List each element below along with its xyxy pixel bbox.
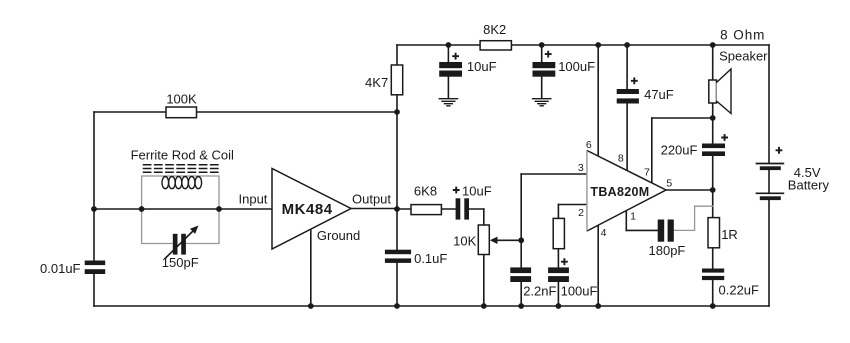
svg-text:6: 6 — [586, 139, 592, 151]
svg-text:2: 2 — [578, 207, 584, 219]
svg-text:MK484: MK484 — [282, 201, 333, 218]
svg-text:1R: 1R — [721, 227, 738, 242]
svg-text:220uF: 220uF — [661, 143, 698, 158]
svg-text:Output: Output — [352, 191, 391, 206]
svg-text:100uF: 100uF — [561, 284, 598, 299]
svg-text:4: 4 — [601, 227, 607, 239]
svg-text:0.01uF: 0.01uF — [40, 261, 81, 276]
svg-text:150pF: 150pF — [162, 255, 199, 270]
svg-text:180pF: 180pF — [649, 243, 686, 258]
svg-text:8 Ohm: 8 Ohm — [720, 27, 765, 42]
svg-text:8: 8 — [618, 152, 624, 164]
svg-text:7: 7 — [644, 166, 650, 178]
svg-text:4K7: 4K7 — [365, 75, 388, 90]
svg-text:100K: 100K — [166, 92, 197, 107]
svg-text:10uF: 10uF — [467, 59, 497, 74]
svg-text:Ground: Ground — [317, 228, 360, 243]
svg-text:47uF: 47uF — [644, 87, 674, 102]
svg-text:10K: 10K — [453, 234, 476, 249]
svg-text:5: 5 — [666, 178, 672, 190]
svg-text:Ferrite Rod & Coil: Ferrite Rod & Coil — [131, 148, 234, 163]
svg-text:Speaker: Speaker — [719, 48, 768, 63]
svg-text:Input: Input — [239, 191, 268, 206]
svg-text:1: 1 — [630, 211, 636, 223]
svg-text:2.2nF: 2.2nF — [523, 284, 556, 299]
svg-text:100uF: 100uF — [558, 59, 595, 74]
svg-text:0.22uF: 0.22uF — [719, 283, 760, 298]
svg-text:0.1uF: 0.1uF — [414, 251, 447, 266]
svg-text:10uF: 10uF — [462, 184, 492, 199]
svg-text:3: 3 — [578, 162, 584, 174]
svg-text:Battery: Battery — [788, 177, 830, 192]
svg-text:6K8: 6K8 — [414, 184, 437, 199]
svg-text:8K2: 8K2 — [483, 22, 506, 37]
svg-text:TBA820M: TBA820M — [590, 185, 649, 199]
